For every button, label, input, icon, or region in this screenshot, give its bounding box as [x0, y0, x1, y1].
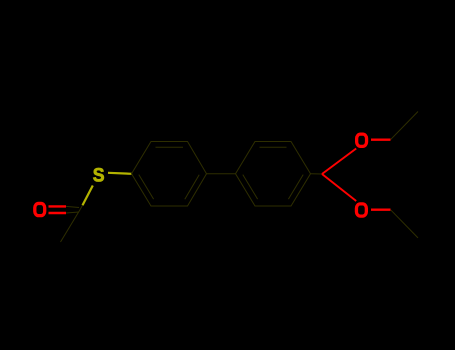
bond ring1-ring2 biphenyl link [207, 173, 236, 175]
bond C3-O3 (red) [322, 174, 356, 201]
bond C6-C7 ethyl bottom CH2-CH3 [391, 210, 419, 238]
ring 1 aromatic inner lines [139, 147, 199, 199]
bond C1-C2 methyl [61, 210, 81, 242]
bond C1-S1 carbon tip [80, 205, 83, 209]
bond C3-O2 (red) [322, 149, 356, 175]
ring 2 aromatic inner lines [243, 147, 303, 199]
atom O2 (top acetal oxygen) [357, 134, 367, 146]
ring 1 benzene hexagon [132, 142, 207, 207]
atom O3 (bottom acetal oxygen) [356, 204, 366, 216]
bond O2-C4 (red, to ethyl CH2) [371, 138, 391, 140]
bond C1=O1 oxygen half (red double lines) [49, 206, 67, 213]
bond O3-C6 (red, to ethyl CH2) [371, 208, 391, 210]
bond ring2-C3 acetal CH [311, 173, 323, 175]
bond C1-S1 sulfur part [83, 186, 93, 206]
bond S1-ring1 [108, 173, 132, 174]
atom O1 (carbonyl oxygen) [35, 203, 45, 215]
ring 2 benzene hexagon [236, 142, 311, 207]
svg-text:S: S [93, 164, 105, 186]
bond C1=O1 carbon half (dark double lines) [66, 206, 79, 213]
bond C4-C5 ethyl top CH2-CH3 [391, 112, 419, 140]
